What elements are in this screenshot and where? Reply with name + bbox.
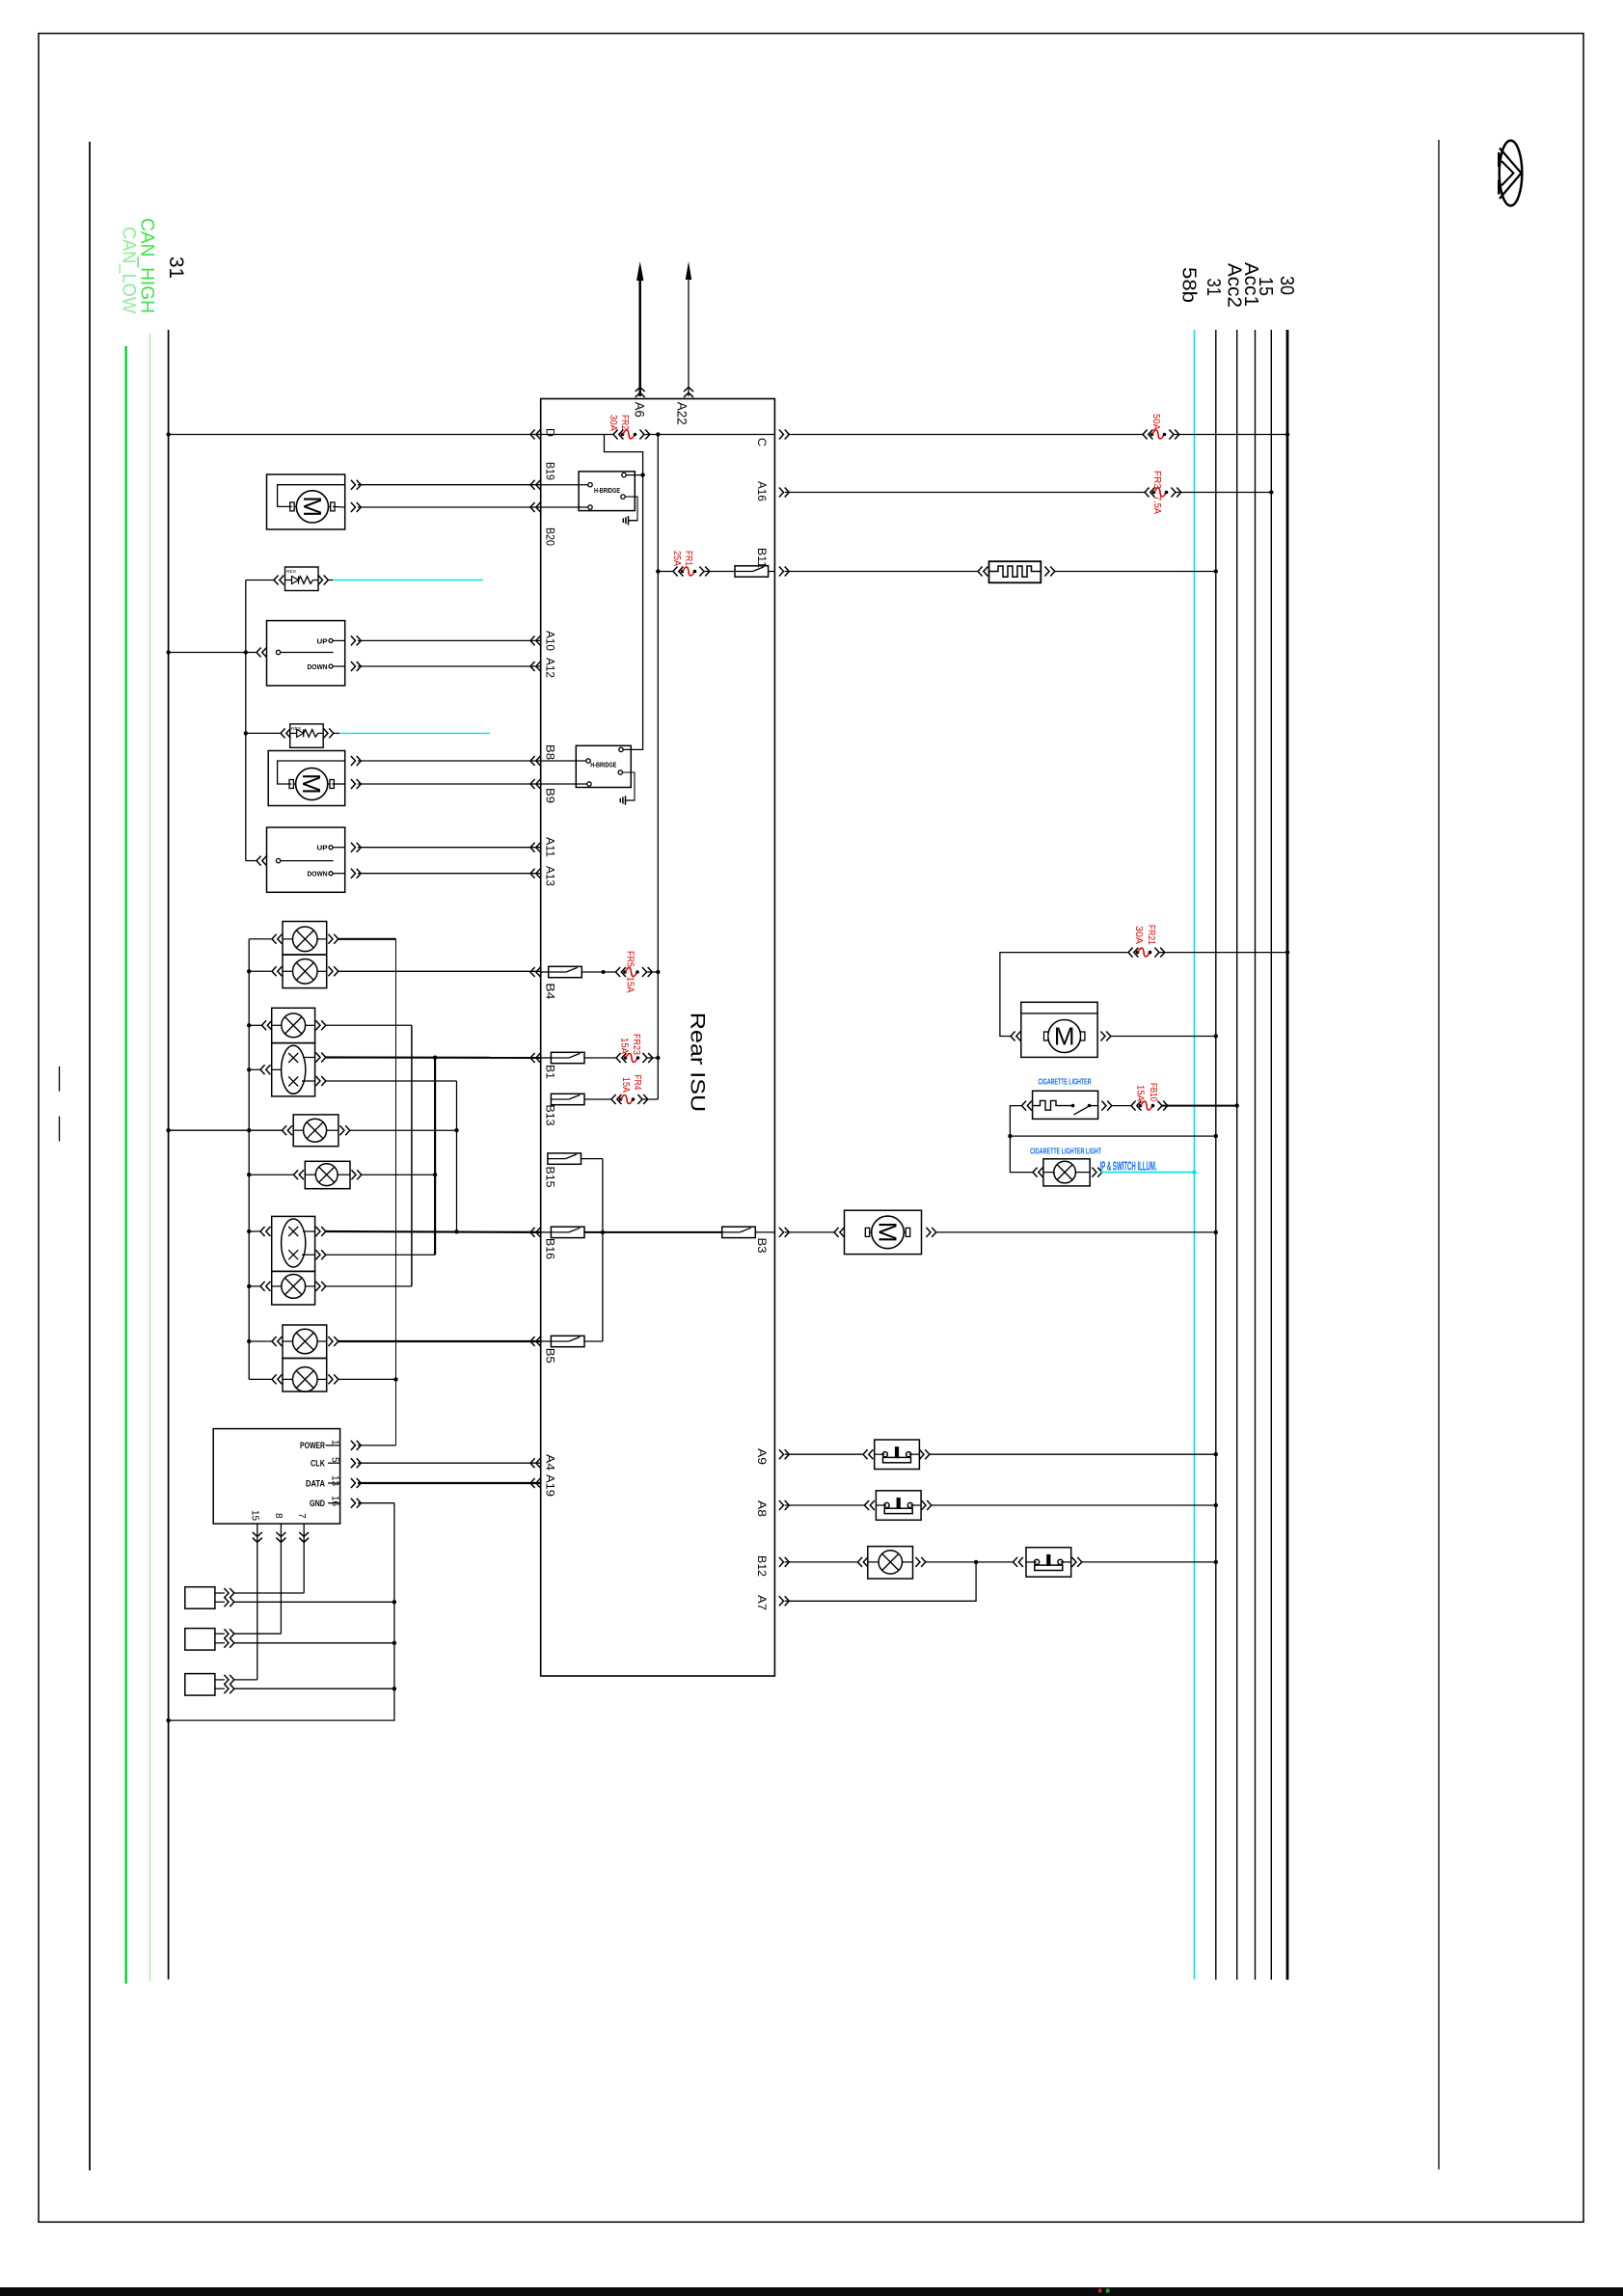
- svg-text:FR3: FR3: [1151, 471, 1162, 489]
- svg-text:B20: B20: [544, 527, 555, 546]
- svg-text:M: M: [297, 773, 326, 795]
- svg-text:50A: 50A: [1150, 414, 1161, 430]
- svg-text:A8: A8: [755, 1500, 767, 1517]
- svg-text:DATA: DATA: [306, 1478, 325, 1488]
- svg-text:A12: A12: [544, 658, 555, 678]
- svg-text:30A: 30A: [1133, 926, 1144, 944]
- svg-text:B3: B3: [755, 1238, 767, 1254]
- svg-text:DOWN: DOWN: [308, 870, 328, 878]
- svg-text:FR21: FR21: [1146, 925, 1156, 945]
- svg-text:A9: A9: [755, 1448, 767, 1465]
- svg-text:8: 8: [273, 1513, 284, 1519]
- svg-text:A19: A19: [544, 1474, 555, 1497]
- svg-text:5: 5: [330, 1457, 340, 1463]
- svg-text:B16: B16: [544, 1238, 555, 1259]
- svg-text:B13: B13: [544, 1105, 555, 1126]
- svg-text:15A: 15A: [1135, 1085, 1146, 1101]
- svg-text:FR5: FR5: [625, 951, 636, 967]
- svg-text:CIGARETTE LIGHTER: CIGARETTE LIGHTER: [1039, 1076, 1092, 1086]
- svg-text:UP: UP: [317, 636, 328, 645]
- svg-text:58b: 58b: [1178, 267, 1200, 303]
- svg-text:A7: A7: [755, 1595, 767, 1610]
- svg-text:25A: 25A: [671, 551, 682, 566]
- svg-text:16: 16: [330, 1496, 340, 1506]
- svg-text:A16: A16: [755, 481, 767, 501]
- svg-text:FR1: FR1: [683, 551, 693, 566]
- svg-text:B12: B12: [755, 1555, 767, 1577]
- svg-text:M: M: [298, 496, 327, 517]
- svg-text:15: 15: [250, 1510, 260, 1521]
- svg-text:M: M: [1054, 1022, 1075, 1051]
- svg-text:B19: B19: [544, 462, 555, 480]
- svg-text:IP & SWITCH ILLUM.: IP & SWITCH ILLUM.: [1100, 1159, 1157, 1174]
- svg-text:A22: A22: [675, 402, 690, 425]
- svg-text:Rear ISU: Rear ISU: [687, 1013, 709, 1113]
- svg-text:A10: A10: [544, 631, 555, 651]
- svg-text:CAN_LOW: CAN_LOW: [119, 227, 139, 313]
- svg-text:FR2: FR2: [619, 415, 630, 430]
- svg-text:B1: B1: [544, 1065, 555, 1079]
- svg-text:15A: 15A: [619, 1038, 630, 1054]
- svg-text:Acc2: Acc2: [1224, 263, 1245, 308]
- svg-text:A4: A4: [544, 1454, 555, 1472]
- svg-text:31: 31: [1203, 279, 1224, 297]
- svg-text:B9: B9: [544, 788, 555, 803]
- svg-text:B11: B11: [755, 548, 767, 568]
- svg-text:B5: B5: [544, 1348, 555, 1364]
- svg-text:7.5A: 7.5A: [1151, 496, 1162, 514]
- svg-text:15A: 15A: [625, 977, 636, 993]
- svg-text:D: D: [544, 428, 555, 437]
- svg-text:13: 13: [330, 1475, 340, 1486]
- svg-text:C: C: [755, 438, 767, 446]
- svg-text:FR23: FR23: [631, 1034, 641, 1055]
- svg-text:GND: GND: [310, 1499, 325, 1508]
- svg-text:H-BRIDGE: H-BRIDGE: [594, 486, 620, 495]
- svg-text:7: 7: [296, 1513, 307, 1519]
- svg-text:M: M: [874, 1222, 903, 1243]
- svg-text:30: 30: [1276, 276, 1297, 295]
- svg-text:FB10: FB10: [1148, 1083, 1158, 1101]
- svg-text:CIGARETTE LIGHTER LIGHT: CIGARETTE LIGHTER LIGHT: [1030, 1147, 1102, 1156]
- svg-text:B4: B4: [544, 983, 555, 1000]
- svg-text:A6: A6: [633, 402, 647, 418]
- svg-text:31: 31: [165, 257, 187, 279]
- svg-text:FR4: FR4: [632, 1074, 642, 1090]
- svg-text:1: 1: [330, 1440, 340, 1445]
- svg-text:A11: A11: [544, 837, 555, 857]
- svg-text:H-BRIDGE: H-BRIDGE: [590, 761, 616, 770]
- svg-text:B15: B15: [544, 1167, 555, 1188]
- svg-text:CLK: CLK: [311, 1459, 325, 1469]
- svg-text:UP: UP: [317, 844, 328, 852]
- svg-text:POWER: POWER: [300, 1441, 325, 1450]
- svg-text:30A: 30A: [608, 415, 618, 431]
- svg-text:DOWN: DOWN: [308, 662, 328, 671]
- svg-text:15A: 15A: [620, 1077, 631, 1093]
- svg-text:CAN_HIGH: CAN_HIGH: [137, 218, 157, 313]
- svg-text:RES: RES: [286, 569, 296, 574]
- svg-text:B8: B8: [544, 744, 555, 760]
- svg-text:A13: A13: [544, 866, 555, 886]
